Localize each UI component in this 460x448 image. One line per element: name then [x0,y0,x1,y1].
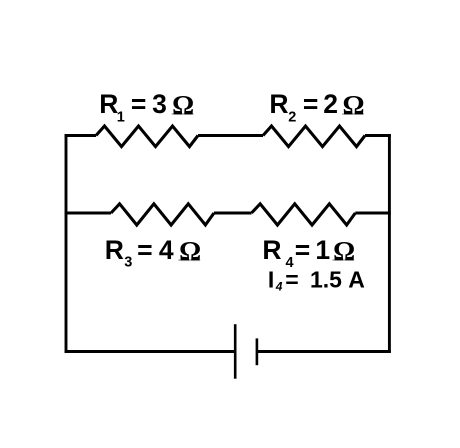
wire: left vertical side [65,134,68,353]
wire: right vertical side [388,134,391,353]
svg-text:Ω: Ω [172,89,194,120]
svg-text:1: 1 [315,235,330,265]
svg-text:=: = [303,89,318,119]
svg-text:4: 4 [275,280,283,294]
svg-text:=: = [285,266,298,292]
svg-text:4: 4 [159,235,174,265]
svg-text:3: 3 [124,255,132,271]
resistor R3 [111,204,214,225]
label I4 current value: I4 = 1.5 A [268,266,365,293]
label R1 value: R1 = 3 ohm [99,89,194,126]
svg-text:Ω: Ω [179,235,201,266]
wire: top middle between R1 and R2 [198,134,263,137]
svg-text:Ω: Ω [333,235,355,266]
svg-text:1: 1 [117,109,125,125]
wire: middle between R3 and R4 [214,212,252,215]
battery B1 long plate (positive) [234,324,237,379]
wire: bottom right from battery [257,350,391,353]
wire: top-left lead [65,134,96,137]
resistor R4 [252,204,356,225]
battery B1 short plate (negative) [256,338,259,365]
label R2 value: R2 = 2 ohm [269,89,364,126]
wire: bottom left to battery [65,350,236,353]
svg-text:R: R [262,235,281,265]
wire: middle branch right lead [355,212,391,215]
svg-text:R: R [99,89,118,119]
wire: top-right lead [365,134,391,137]
svg-text:A: A [348,267,365,293]
svg-text:=: = [131,89,146,119]
svg-text:3: 3 [152,89,167,119]
svg-text:I: I [268,266,274,292]
svg-text:Ω: Ω [343,89,365,120]
svg-text:2: 2 [288,109,296,125]
svg-text:2: 2 [323,89,338,119]
svg-text:R: R [269,89,288,119]
svg-text:=: = [137,235,152,265]
svg-text:=: = [295,235,310,265]
label R4 value: R4 = 1 ohm [262,235,355,271]
wire: middle branch left lead [65,212,111,215]
svg-text:R: R [105,235,124,265]
label R3 value: R3 = 4 ohm [105,235,201,271]
resistor R1 [96,126,198,147]
svg-text:1.5: 1.5 [310,266,342,292]
resistor R2 [263,126,365,147]
